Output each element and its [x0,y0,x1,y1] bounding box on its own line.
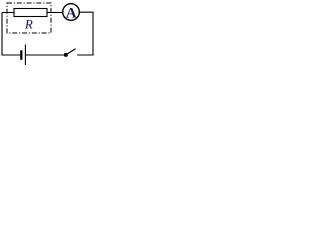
svg-text:A: A [66,6,77,22]
svg-text:R: R [24,16,33,31]
